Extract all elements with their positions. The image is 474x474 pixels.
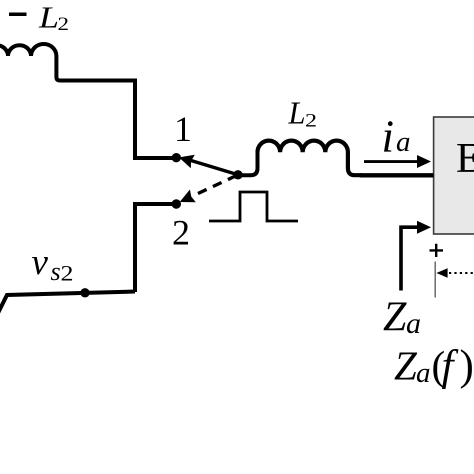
inductor (top-left, partially cut off at left edge) <box>0 44 70 81</box>
node contact 1 <box>172 153 181 162</box>
current arrow i_a <box>364 160 419 163</box>
wire from L2 to EUT box <box>360 173 434 177</box>
switch solid arm (pivot to contact 1) <box>191 161 238 175</box>
switch arrowhead at contact 1 <box>179 155 195 168</box>
svg-text:Z: Z <box>383 295 407 341</box>
label L1 - L2 (cut off at left edge): minus sign <box>9 13 27 17</box>
switch dashed arm (pivot to contact 2) <box>192 176 237 197</box>
node on v_s2 wire <box>80 288 89 297</box>
Z_a arrow into box (bottom of EUT) <box>401 227 419 290</box>
svg-text:Z: Z <box>394 343 418 389</box>
EUT box (gray, cut off at right edge) <box>434 117 474 234</box>
wire from pivot to inductor L2 <box>238 152 258 175</box>
dotted dimension arrow (cut off at right) <box>436 268 447 277</box>
svg-text:a: a <box>406 307 421 340</box>
node contact 2 <box>172 199 181 208</box>
svg-text:2: 2 <box>305 111 317 132</box>
source wire v_s2 (cut off at left edge) <box>0 292 135 314</box>
svg-text:2: 2 <box>58 14 70 35</box>
svg-text:a: a <box>416 357 431 389</box>
control pulse symbol <box>209 192 298 221</box>
switch arrowhead at contact 2 <box>180 190 196 203</box>
svg-text:v: v <box>32 242 49 283</box>
svg-text:L: L <box>288 95 306 131</box>
svg-text:E: E <box>456 136 474 182</box>
svg-text:L: L <box>38 0 59 35</box>
svg-text:s: s <box>51 257 61 286</box>
svg-text:i: i <box>382 111 395 162</box>
plus sign <box>430 244 444 257</box>
svg-text:1: 1 <box>174 109 192 149</box>
svg-text:2: 2 <box>172 213 190 253</box>
svg-text:2: 2 <box>61 261 74 286</box>
wire from top-left inductor to switch contact 1 <box>68 81 176 159</box>
svg-text:): ) <box>460 343 474 390</box>
switch pivot node <box>233 170 242 179</box>
inductor L2 <box>258 141 363 176</box>
wire from contact 2 down to source <box>135 204 176 292</box>
svg-text:a: a <box>396 126 411 158</box>
thin vertical reference line <box>434 262 436 298</box>
svg-text:f: f <box>442 343 459 390</box>
